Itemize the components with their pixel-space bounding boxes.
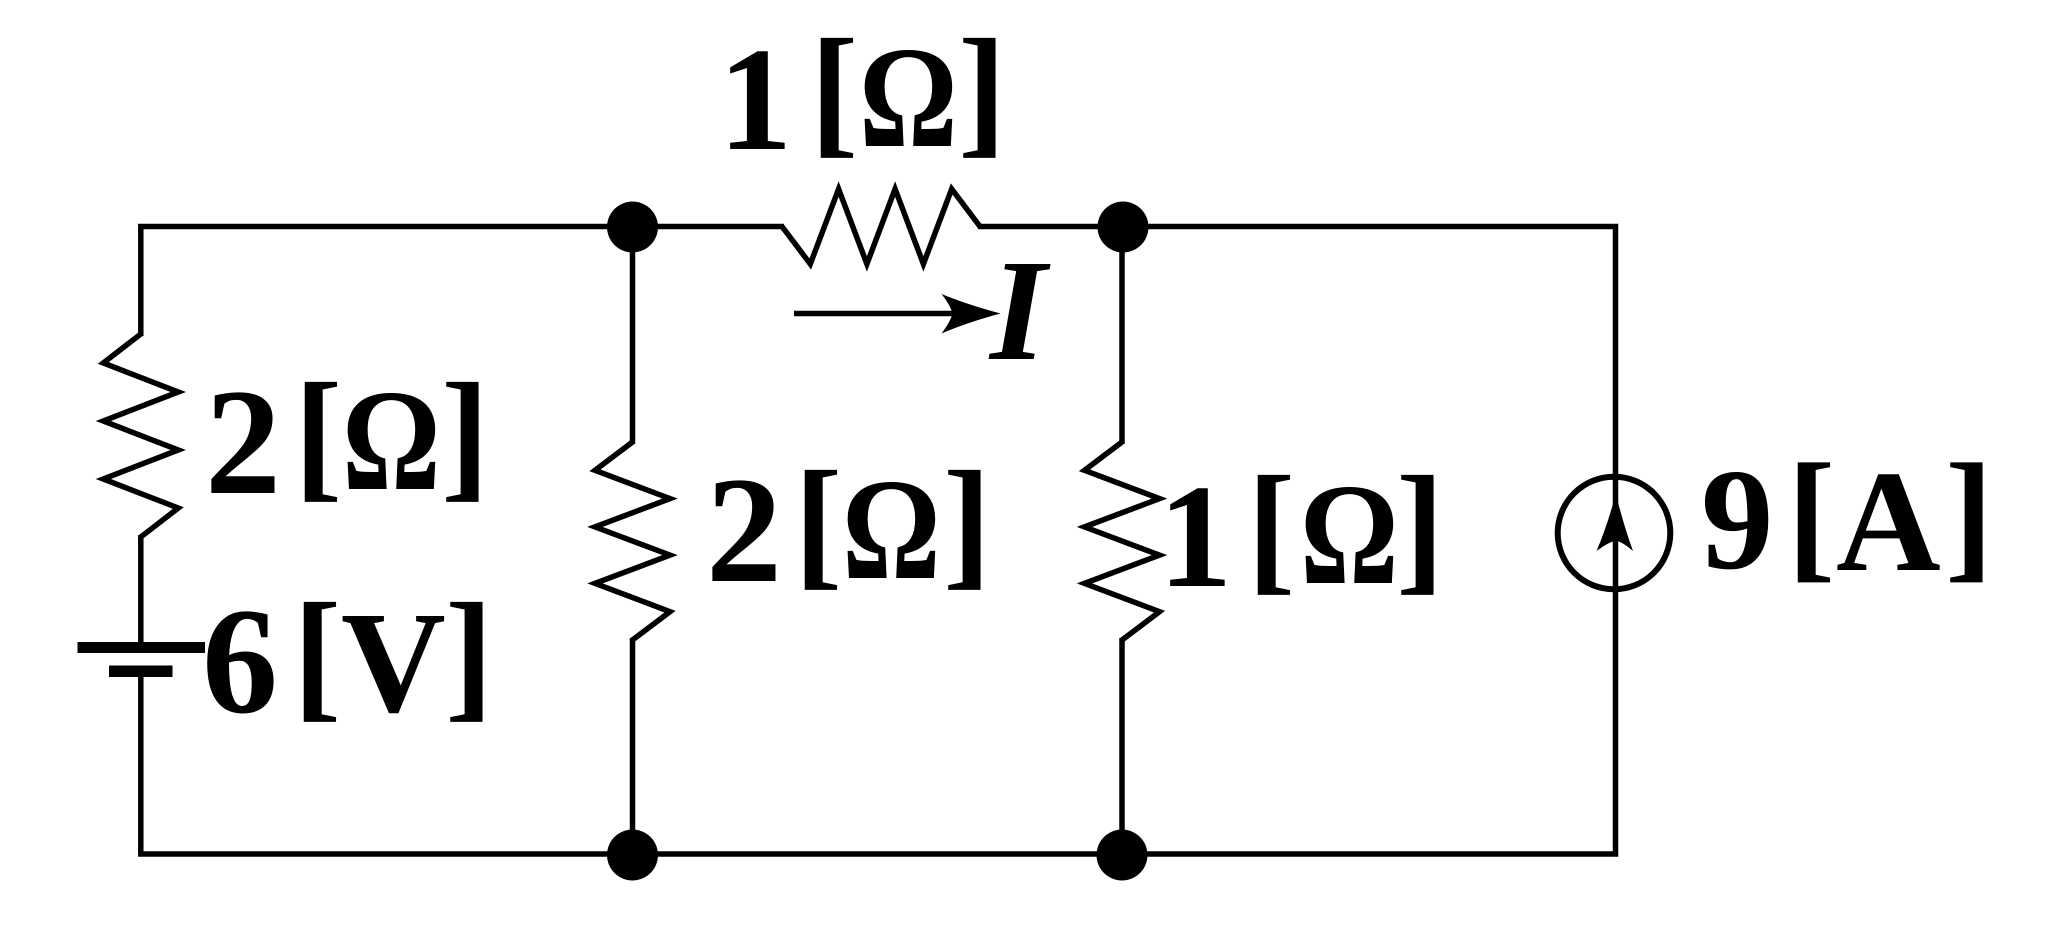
svg-text:]: ] xyxy=(958,11,1006,171)
svg-text:]: ] xyxy=(441,355,489,515)
svg-text:]: ] xyxy=(943,443,991,603)
label: current source value "9[A]" xyxy=(1701,435,1993,602)
svg-text:[: [ xyxy=(1787,435,1835,595)
battery V=6V short plate (negative) xyxy=(109,666,173,678)
svg-text:]: ] xyxy=(1396,448,1444,608)
svg-text:2: 2 xyxy=(205,358,281,526)
svg-text:V: V xyxy=(341,583,446,743)
current source 9A circle xyxy=(1558,477,1671,590)
svg-text:2: 2 xyxy=(706,446,782,614)
label: middle resistor value "2[ohm]" xyxy=(706,443,991,615)
wire: left branch between resistor and battery xyxy=(138,535,144,647)
svg-text:Ω: Ω xyxy=(342,361,441,522)
label: left resistor value "2[ohm]" xyxy=(205,355,489,527)
svg-text:]: ] xyxy=(445,575,493,735)
svg-text:[: [ xyxy=(293,575,341,735)
bottom junction dot under right resistor branch xyxy=(1097,830,1148,881)
svg-text:1: 1 xyxy=(718,18,792,182)
svg-text:1: 1 xyxy=(1158,455,1232,619)
svg-text:A: A xyxy=(1836,442,1941,602)
label: battery value "6[V]" xyxy=(202,575,493,746)
battery V=6V long plate (positive) xyxy=(78,642,206,653)
label: right resistor value "1[ohm]" xyxy=(1158,448,1444,620)
node B junction dot (top, right resistor branch) xyxy=(1098,202,1149,253)
svg-text:[: [ xyxy=(794,443,842,603)
node A junction dot (top, middle branch) xyxy=(607,202,658,253)
wire: right resistor down to second bottom junction xyxy=(1119,638,1125,854)
svg-text:6: 6 xyxy=(202,577,278,745)
wire: top wire from node A to top-left corner and down to left resistor xyxy=(141,227,784,337)
resistor 2-ohm middle branch (zigzag) xyxy=(595,442,670,640)
resistor 2-ohm left branch (zigzag) xyxy=(103,334,178,537)
svg-text:[: [ xyxy=(810,11,858,171)
wire: node B down to right resistor xyxy=(1119,227,1125,444)
resistor 1-ohm right branch (zigzag) xyxy=(1085,442,1160,640)
svg-text:]: ] xyxy=(1945,435,1993,595)
current arrow I shaft xyxy=(794,311,960,317)
label: top resistor value "1[ohm]" xyxy=(718,11,1006,183)
wire: bottom-right corner, right side through current source, top-right corner to node B xyxy=(978,227,1616,855)
wire: node A down to middle resistor xyxy=(630,227,636,444)
svg-text:Ω: Ω xyxy=(842,450,941,611)
wire: middle resistor down to bottom junction xyxy=(630,638,636,854)
wire: left-bottom corner, bottom wire to first bottom junction xyxy=(141,671,634,854)
current source arrowhead (pointing up) xyxy=(1597,494,1634,551)
wire: bottom wire between the two bottom junctions xyxy=(630,851,1124,857)
svg-text:Ω: Ω xyxy=(859,18,958,179)
svg-text:[: [ xyxy=(1247,448,1295,608)
svg-text:[: [ xyxy=(294,355,342,515)
svg-text:I: I xyxy=(988,231,1051,391)
bottom junction dot under middle branch xyxy=(607,830,658,881)
resistor 1-ohm top branch (zigzag) xyxy=(782,189,980,264)
svg-text:9: 9 xyxy=(1701,440,1774,600)
svg-text:Ω: Ω xyxy=(1300,455,1399,616)
current arrow I head (pointing right) xyxy=(942,294,1001,334)
